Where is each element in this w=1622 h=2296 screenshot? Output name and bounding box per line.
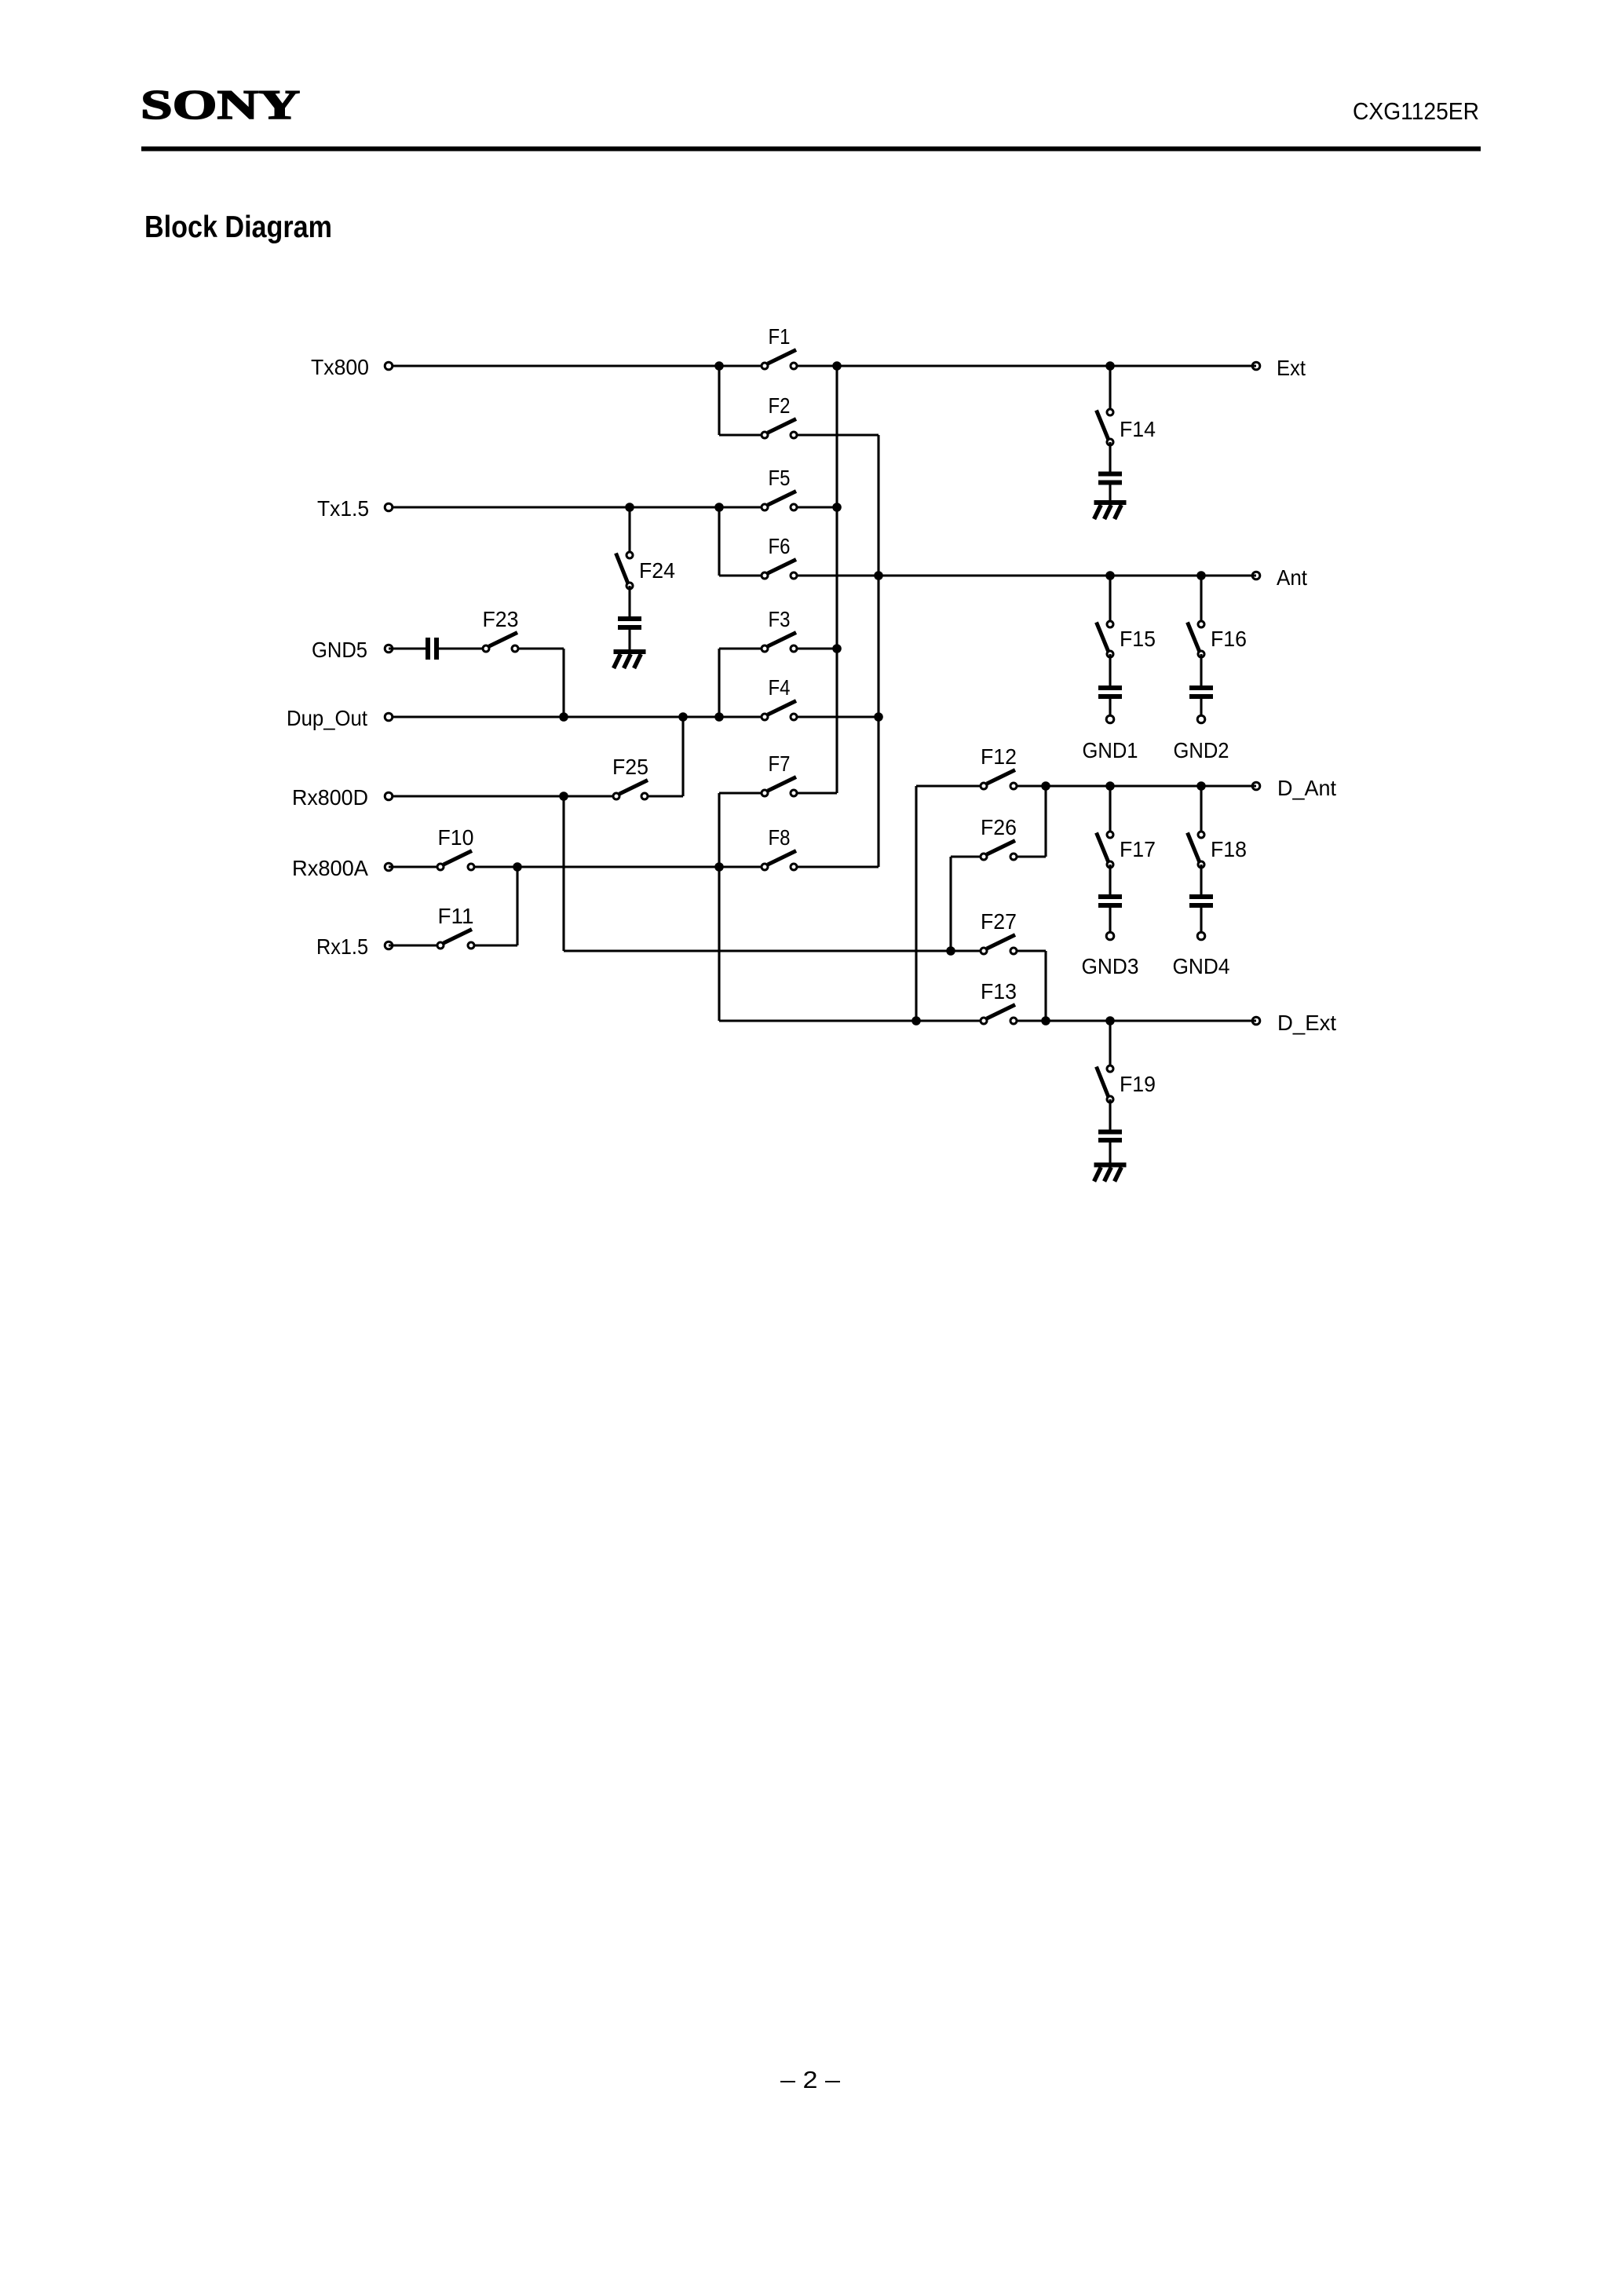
ground F24 branch ground [614,649,646,668]
label GND2 [1174,738,1229,762]
label F26 [981,815,1017,839]
wire F5 right [794,506,837,508]
label Dup_Out [287,706,367,730]
wire Rx800D drop to F27 row [562,796,564,951]
wire capacitor to ground (F14) [1109,485,1111,501]
label F6 [769,534,791,558]
label F18 [1211,837,1247,861]
wire capacitor to GND4 [1200,908,1202,936]
switch F14 [1097,409,1114,445]
label page number [780,2066,841,2093]
wire F3 left [719,647,765,649]
wire Rx800D to F25 [393,795,616,797]
port GND5 terminal [385,645,393,653]
label F17 [1120,837,1156,861]
label Rx800D [292,785,368,810]
label Rx1.5 [316,934,368,959]
wire F8 right [794,865,879,868]
switch F3 [762,633,797,653]
ground F19 branch ground [1094,1163,1127,1182]
switch F8 [762,851,797,871]
label F27 [981,909,1017,934]
label F11 [438,904,474,928]
wire F15 to capacitor [1109,654,1111,686]
wire F26 rise to D_Ant [1044,786,1047,857]
wire D_Ext drop to F19 [1109,1021,1111,1069]
wire F26 drop to F27 [949,857,952,951]
junction Rx800D/F27 branch [559,792,568,801]
wire F12 left [916,784,984,787]
svg-text:Tx1.5: Tx1.5 [317,496,369,521]
svg-text:F26: F26 [981,815,1017,839]
wire Rx800A to F10 [389,865,440,868]
wire F25 rise to Dup_Out [681,717,684,796]
port Rx800A terminal [385,863,393,871]
wire F18 to capacitor [1200,865,1202,894]
capacitor F17 branch capacitor [1098,894,1122,908]
wire F23 right [515,647,564,649]
wire F1-F5-F3-F7 bus [835,366,838,793]
wire D_Ant drop to F17 [1109,786,1111,835]
wire F16 to capacitor [1200,654,1202,686]
switch F26 [981,841,1017,861]
port Dup_Out terminal [385,713,393,721]
port GND2 terminal [1197,715,1205,723]
label GND1 [1083,738,1138,762]
wire capacitor to ground (F24) [628,630,630,649]
junction D_Ext/F19 [1105,1016,1115,1026]
port Rx800D terminal [385,792,393,800]
junction Rx800A/F11 [513,862,522,872]
switch F10 [437,851,474,871]
label D_Ext [1277,1011,1336,1035]
svg-text:SONY: SONY [141,82,300,128]
label F16 [1211,627,1247,651]
header rule [141,147,1481,152]
wire F27 right [1014,949,1046,952]
label F10 [438,825,474,850]
wire F13 left [719,1019,984,1022]
wire capacitor to ground (F19) [1109,1143,1111,1163]
label Ant [1277,565,1307,590]
capacitor F18 branch capacitor [1189,894,1213,908]
svg-text:Rx800D: Rx800D [292,785,368,810]
wire F3 drop to Dup_Out [718,649,720,717]
svg-text:F8: F8 [769,825,791,850]
switch F6 [762,560,797,579]
wire F10 to F8 [471,865,765,868]
junction Tx1.5/F24 [625,503,634,512]
switch F11 [437,930,474,949]
svg-text:F2: F2 [769,393,791,418]
wire F7 right [794,792,837,794]
svg-text:F15: F15 [1120,627,1156,651]
port Ext terminal [1252,362,1260,370]
switch F25 [613,781,648,800]
label F1 [769,324,791,349]
svg-text:– 2 –: – 2 – [780,2066,841,2093]
junction Ant/F15 [1105,571,1115,580]
junction Ant/F2 bus [874,571,883,580]
wire F12 to D_Ant [1014,784,1256,787]
svg-text:F3: F3 [769,607,791,631]
wire Tx800 to F1 [393,364,765,367]
label GND5 [312,638,367,662]
label GND3 [1082,954,1139,978]
port Tx800 terminal [385,362,393,370]
wire F7 drop to F13 [718,793,720,1021]
wire GND5 to capacitor [389,647,426,649]
wire Tx1.5 drop to F6 [718,507,720,576]
svg-text:D_Ext: D_Ext [1277,1011,1336,1035]
svg-text:CXG1125ER: CXG1125ER [1353,97,1479,125]
label F8 [769,825,791,850]
label Tx800 [311,355,369,379]
label F7 [769,751,791,776]
wire F26 left [951,855,984,857]
wire F7 left [719,792,765,794]
wire Tx1.5 to F5 [393,506,765,508]
label GND4 [1173,954,1230,978]
label F19 [1120,1072,1156,1096]
switch F23 [483,633,518,653]
wire F11 rise to Rx800A [516,867,518,945]
svg-text:Ext: Ext [1277,356,1306,380]
wire capacitor to GND2 [1200,699,1202,719]
junction Rx800A/F7 bus [714,862,724,872]
switch F17 [1097,832,1114,868]
svg-text:Dup_Out: Dup_Out [287,706,367,730]
switch F1 [762,350,797,370]
wire F23 drop to Dup_Out [562,649,564,717]
label Ext [1277,356,1306,380]
capacitor GND5 series [426,638,439,660]
svg-text:F27: F27 [981,909,1017,934]
switch F4 [762,701,797,721]
junction Tx800/F2 [714,361,724,371]
wire F24 to capacitor [628,586,630,616]
label F2 [769,393,791,418]
switch F27 [981,935,1017,955]
wire F12 drop to D_Ext [915,786,917,1021]
port D_Ant terminal [1252,782,1260,790]
label F24 [639,558,675,583]
port Rx1.5 terminal [385,941,393,949]
svg-text:F16: F16 [1211,627,1247,651]
svg-text:F1: F1 [769,324,791,349]
ground F14 branch ground [1094,500,1127,519]
label F5 [769,466,791,490]
wire capacitor to GND3 [1109,908,1111,936]
switch F18 [1188,832,1205,868]
label F15 [1120,627,1156,651]
junction Dup_Out/F3 [714,712,724,722]
port D_Ext terminal [1252,1017,1260,1025]
junction F3 output bus [832,644,842,653]
switch F5 [762,492,797,511]
switch F24 [616,552,634,589]
wire D_Ant drop to F18 [1200,786,1202,835]
svg-text:F17: F17 [1120,837,1156,861]
svg-text:F14: F14 [1120,417,1156,441]
label title [144,210,332,244]
svg-text:GND1: GND1 [1083,738,1138,762]
svg-text:Ant: Ant [1277,565,1307,590]
wire Ant drop to F16 [1200,576,1202,624]
junction Ant/F16 [1196,571,1206,580]
capacitor F16 branch capacitor [1189,686,1213,699]
junction D_Ant/F17 [1105,781,1115,791]
wire F2-F6-F4-F8 bus [877,435,879,867]
svg-text:Tx800: Tx800 [311,355,369,379]
wire F6 left [719,574,765,576]
svg-text:F4: F4 [769,675,791,700]
switch F13 [981,1005,1017,1025]
junction Ext/F14 [1105,361,1115,371]
capacitor F15 branch capacitor [1098,686,1122,699]
port GND3 terminal [1106,932,1114,940]
wire F3 right [794,647,837,649]
junction F1 output bus [832,361,842,371]
wire Ant drop to F15 [1109,576,1111,624]
svg-text:Rx800A: Rx800A [292,856,368,880]
Sony logo [141,82,300,128]
junction Dup_Out/F23 [559,712,568,722]
svg-text:F7: F7 [769,751,791,776]
wire F19 to capacitor [1109,1099,1111,1130]
junction Dup_Out/F25 [678,712,688,722]
svg-text:D_Ant: D_Ant [1277,776,1336,800]
wire F13 to D_Ext [1014,1019,1256,1022]
switch F15 [1097,621,1114,657]
wire F6 to Ant [794,574,1256,576]
label F23 [483,607,519,631]
wire Rx800D branch to F27 [564,949,984,952]
svg-text:F13: F13 [981,979,1017,1004]
switch F12 [981,770,1017,790]
svg-text:Block Diagram: Block Diagram [144,210,332,244]
label F4 [769,675,791,700]
svg-text:F12: F12 [981,744,1017,769]
wire F2 right [794,433,879,436]
wire Tx1.5 drop to F24 [628,507,630,555]
wire F17 to capacitor [1109,865,1111,894]
switch F19 [1097,1066,1114,1102]
svg-text:F10: F10 [438,825,474,850]
capacitor F19 branch capacitor [1098,1130,1122,1143]
label F25 [612,755,648,779]
junction Tx1.5/F6 [714,503,724,512]
port GND4 terminal [1197,932,1205,940]
junction F27/F26 [946,946,955,956]
junction D_Ext/F12 [911,1016,921,1026]
svg-text:Rx1.5: Rx1.5 [316,934,368,959]
wire Ext drop to F14 [1109,366,1111,412]
wire F26 right [1014,855,1046,857]
svg-text:F24: F24 [639,558,675,583]
wire Tx800 drop to F2 [718,366,720,435]
junction Dup_Out/F2 bus [874,712,883,722]
label D_Ant [1277,776,1336,800]
svg-text:GND3: GND3 [1082,954,1139,978]
svg-text:F5: F5 [769,466,791,490]
svg-text:F18: F18 [1211,837,1247,861]
wire F14 to capacitor [1109,442,1111,472]
wire F2 left [719,433,765,436]
junction D_Ant/F26 [1041,781,1050,791]
label F12 [981,744,1017,769]
wire Rx1.5 to F11 [389,944,440,946]
wire F11 right [471,944,517,946]
wire F25 right [645,795,683,797]
svg-text:GND2: GND2 [1174,738,1229,762]
switch F2 [762,419,797,439]
junction D_Ext/F27 [1041,1016,1050,1026]
wire F4 right [794,715,879,718]
switch F16 [1188,621,1205,657]
capacitor F14 branch capacitor [1098,472,1122,485]
junction F5 output bus [832,503,842,512]
switch F7 [762,777,797,797]
label F3 [769,607,791,631]
junction D_Ant/F18 [1196,781,1206,791]
svg-text:F23: F23 [483,607,519,631]
label part number [1353,97,1479,125]
svg-text:GND5: GND5 [312,638,367,662]
label Tx1.5 [317,496,369,521]
port Ant terminal [1252,572,1260,579]
wire capacitor to F23 [439,647,486,649]
svg-text:F11: F11 [438,904,474,928]
port GND1 terminal [1106,715,1114,723]
capacitor F24 branch capacitor [618,616,641,630]
wire capacitor to GND1 [1109,699,1111,719]
port Tx1.5 terminal [385,503,393,511]
wire F27 drop to D_Ext [1044,951,1047,1021]
wire Dup_Out to F4 [393,715,765,718]
wire F1 to Ext [794,364,1256,367]
svg-text:F6: F6 [769,534,791,558]
svg-text:GND4: GND4 [1173,954,1230,978]
label Rx800A [292,856,368,880]
label F13 [981,979,1017,1004]
svg-text:F19: F19 [1120,1072,1156,1096]
label F14 [1120,417,1156,441]
svg-text:F25: F25 [612,755,648,779]
